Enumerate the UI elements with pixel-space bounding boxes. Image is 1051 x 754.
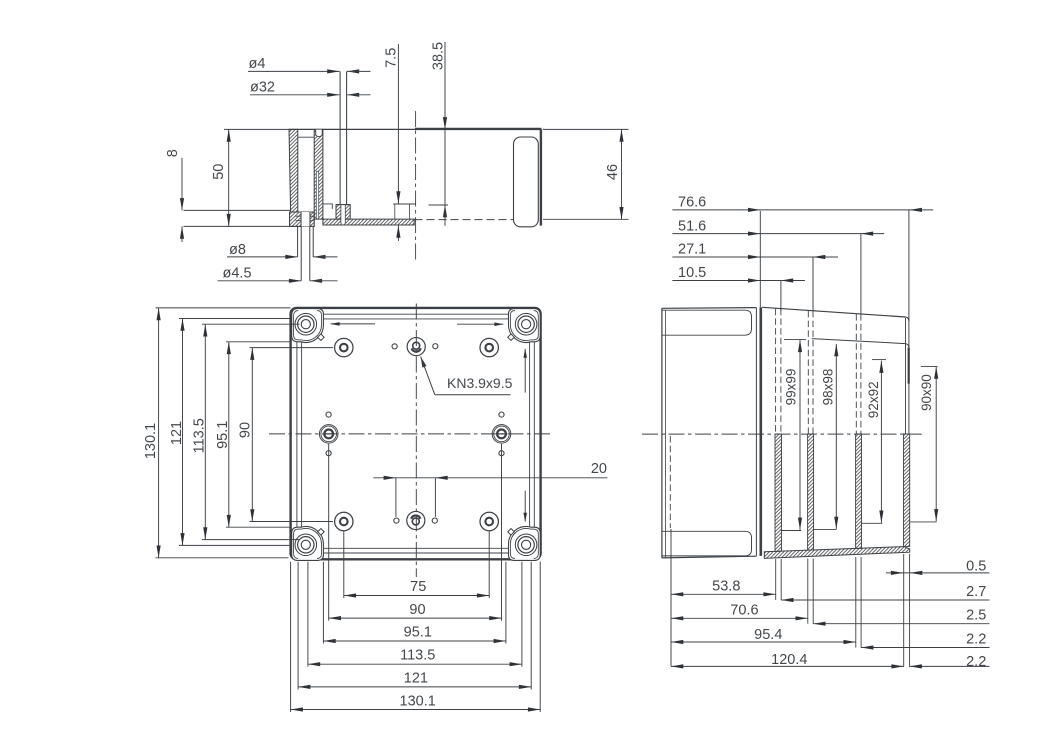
svg-text:2.5: 2.5 [966, 608, 986, 624]
svg-text:ø4: ø4 [249, 56, 266, 72]
svg-text:46: 46 [605, 164, 621, 180]
svg-text:98x98: 98x98 [820, 369, 835, 406]
svg-text:8: 8 [165, 149, 181, 157]
svg-text:51.6: 51.6 [678, 218, 706, 234]
svg-text:120.4: 120.4 [771, 652, 807, 668]
svg-text:99x99: 99x99 [783, 369, 798, 406]
svg-text:92x92: 92x92 [866, 381, 881, 418]
svg-text:10.5: 10.5 [678, 265, 706, 281]
svg-text:27.1: 27.1 [678, 242, 706, 258]
svg-text:95.4: 95.4 [754, 627, 782, 643]
svg-text:20: 20 [591, 461, 607, 477]
svg-text:75: 75 [410, 579, 426, 595]
svg-text:130.1: 130.1 [400, 694, 436, 710]
svg-text:2.2: 2.2 [966, 654, 986, 670]
svg-text:90: 90 [409, 602, 425, 618]
svg-text:ø32: ø32 [250, 79, 275, 95]
svg-text:70.6: 70.6 [730, 602, 758, 618]
svg-text:53.8: 53.8 [712, 578, 740, 594]
svg-text:0.5: 0.5 [966, 558, 986, 574]
svg-text:ø4.5: ø4.5 [223, 266, 252, 282]
svg-text:113.5: 113.5 [400, 648, 435, 664]
svg-text:38.5: 38.5 [430, 42, 446, 70]
svg-text:121: 121 [404, 671, 428, 687]
svg-text:2.2: 2.2 [966, 631, 986, 647]
svg-text:130.1: 130.1 [143, 423, 159, 459]
svg-text:76.6: 76.6 [678, 195, 706, 211]
svg-text:90: 90 [238, 422, 254, 438]
svg-text:95.1: 95.1 [404, 625, 432, 641]
svg-text:KN3.9x9.5: KN3.9x9.5 [447, 375, 513, 391]
svg-text:50: 50 [211, 164, 227, 180]
svg-text:90x90: 90x90 [919, 374, 934, 411]
svg-text:2.7: 2.7 [966, 584, 986, 600]
svg-text:ø8: ø8 [229, 242, 246, 258]
svg-text:7.5: 7.5 [384, 48, 400, 68]
